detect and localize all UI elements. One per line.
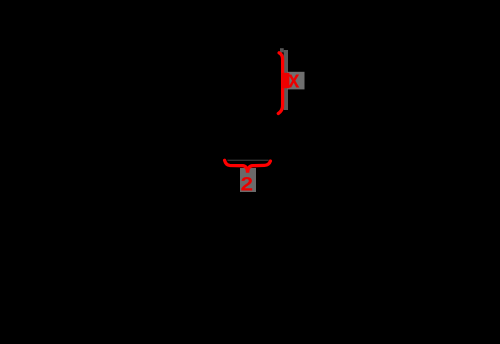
svg-text:2: 2 [241,173,254,195]
halo box of label 2 [240,168,256,192]
bracket cusp wedge [282,73,290,88]
halo sliver above bottom brace [228,160,269,161]
halo strip right of right brace [284,50,288,110]
repeat bracket right (vertical brace) [278,53,282,114]
halo box of label x [287,72,305,90]
halo patch above top tip of right brace [280,48,284,52]
svg-text:x: x [288,67,300,94]
repeat bracket bottom (horizontal under-brace) [225,160,271,172]
